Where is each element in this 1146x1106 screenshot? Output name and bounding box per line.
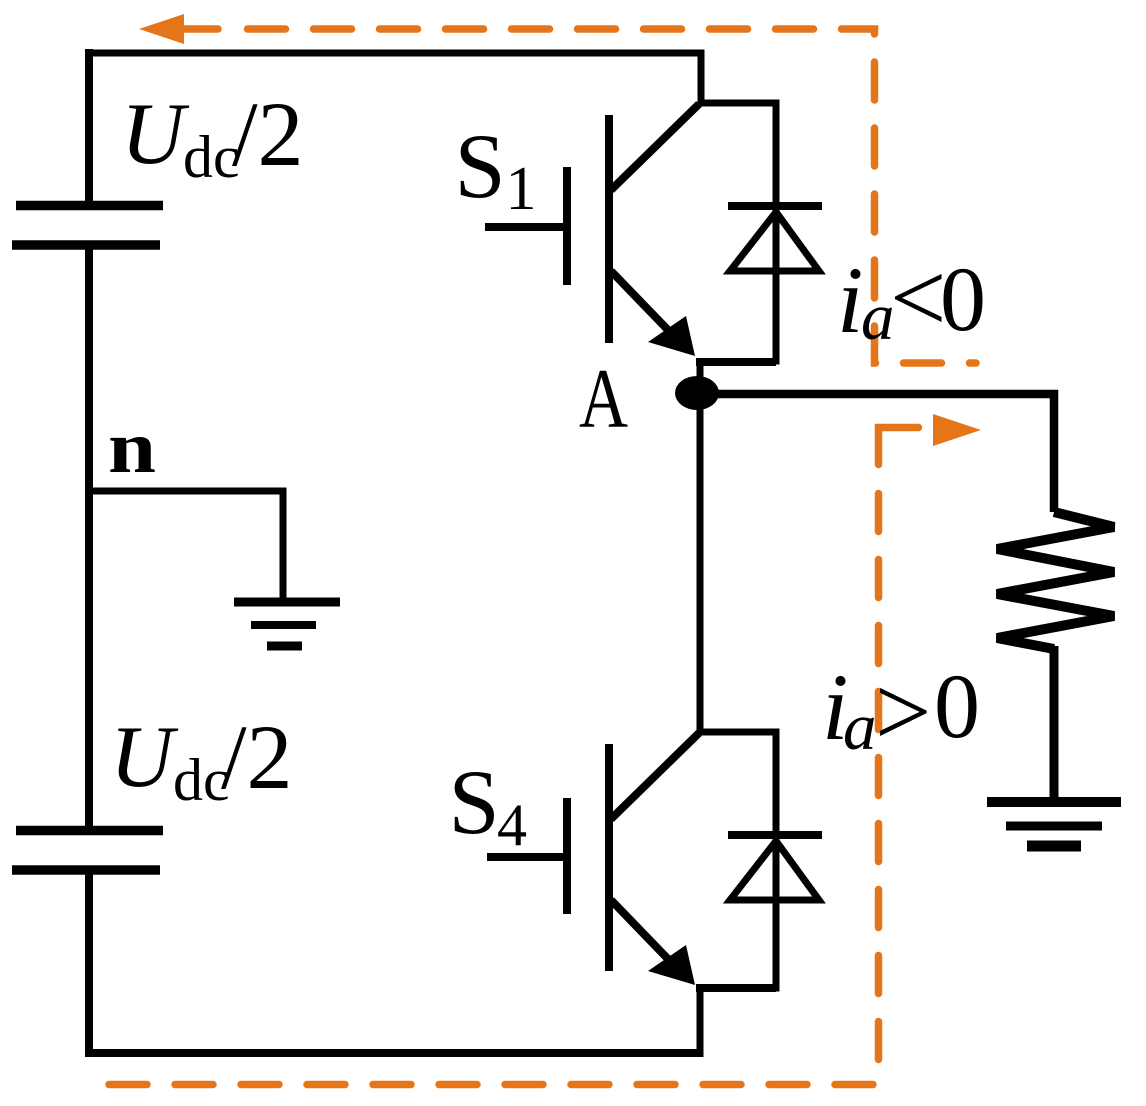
transistor S1 collector slant [611, 104, 699, 190]
wire bottom DC bus rail [85, 1049, 701, 1057]
label Udc/2 upper [121, 83, 304, 190]
transistor S4 gate bar [563, 798, 571, 914]
transistor S4 emitter arrowhead [648, 945, 695, 985]
transistor S1 emitter arrowhead [648, 316, 695, 356]
wire S4 emitter to bottom rail [697, 985, 704, 1058]
transistor S1 body bar [605, 115, 613, 343]
svg-text:i: i [837, 247, 863, 353]
diode D1 triangle [730, 212, 819, 271]
current path ia<0 arrowhead [139, 14, 184, 44]
transistor S1 emitter wire [696, 358, 776, 366]
svg-text:a: a [843, 690, 877, 764]
svg-text:0: 0 [934, 655, 980, 757]
svg-text:<: < [890, 242, 946, 353]
diode D1 vertical wire [773, 100, 780, 365]
ground neutral point [234, 602, 340, 646]
current path ia<0 dashed loop [248, 29, 977, 363]
svg-text:S: S [449, 751, 500, 853]
svg-text:n: n [108, 407, 156, 489]
transistor S4 gate lead [487, 853, 567, 861]
svg-text:A: A [579, 352, 628, 446]
transistor S1 gate lead [485, 223, 567, 231]
transistor S1 gate bar [563, 167, 571, 285]
wire left bus top segment [85, 49, 93, 201]
ground load [987, 802, 1121, 846]
svg-text:/2: /2 [221, 706, 293, 808]
transistor S4 emitter slant [611, 900, 668, 959]
current path ia<0 arrow tail [184, 25, 218, 33]
diode D4 cathode bar [728, 831, 822, 839]
svg-text:1: 1 [506, 155, 537, 223]
capacitor C2 (Udc/2 lower) [12, 831, 163, 871]
transistor S1 emitter slant [611, 271, 668, 330]
svg-text:U: U [110, 709, 179, 806]
transistor S4 emitter wire [696, 984, 776, 992]
label S4 [449, 751, 528, 858]
current path ia>0 arrowhead [933, 414, 981, 446]
diode D4 triangle [730, 841, 819, 900]
current path ia>0 corner [879, 428, 919, 465]
wire output to load [697, 394, 1054, 512]
label Udc/2 lower [110, 706, 293, 813]
wire resistor to ground [1050, 646, 1059, 802]
diode D4 vertical wire [773, 729, 780, 992]
svg-text:4: 4 [497, 792, 527, 858]
current path ia>0 bottom dashed [107, 1081, 874, 1089]
wire left bus bottom segment [85, 874, 93, 1057]
diode D1 cathode bar [728, 202, 822, 210]
capacitor C1 (Udc/2 upper) [12, 206, 163, 246]
wire neutral branch n [89, 491, 283, 602]
label S1 [455, 115, 537, 223]
transistor S4 collector slant [611, 733, 699, 819]
wire phase leg vertical [697, 362, 704, 735]
transistor S4 collector wire [699, 729, 776, 736]
current path ia>0 vertical dashed [875, 494, 883, 1071]
svg-text:S: S [455, 115, 506, 217]
svg-text:/2: /2 [232, 83, 304, 185]
label ia<0 [837, 242, 986, 354]
svg-text:0: 0 [940, 248, 986, 350]
resistor load zigzag [997, 512, 1114, 649]
svg-text:>: > [875, 656, 931, 767]
label ia>0 [822, 654, 980, 767]
wire top DC bus rail [85, 53, 776, 103]
node A junction dot [675, 376, 719, 410]
svg-text:U: U [121, 86, 190, 183]
transistor S4 body bar [605, 744, 613, 971]
wire left bus middle segment [85, 249, 93, 827]
